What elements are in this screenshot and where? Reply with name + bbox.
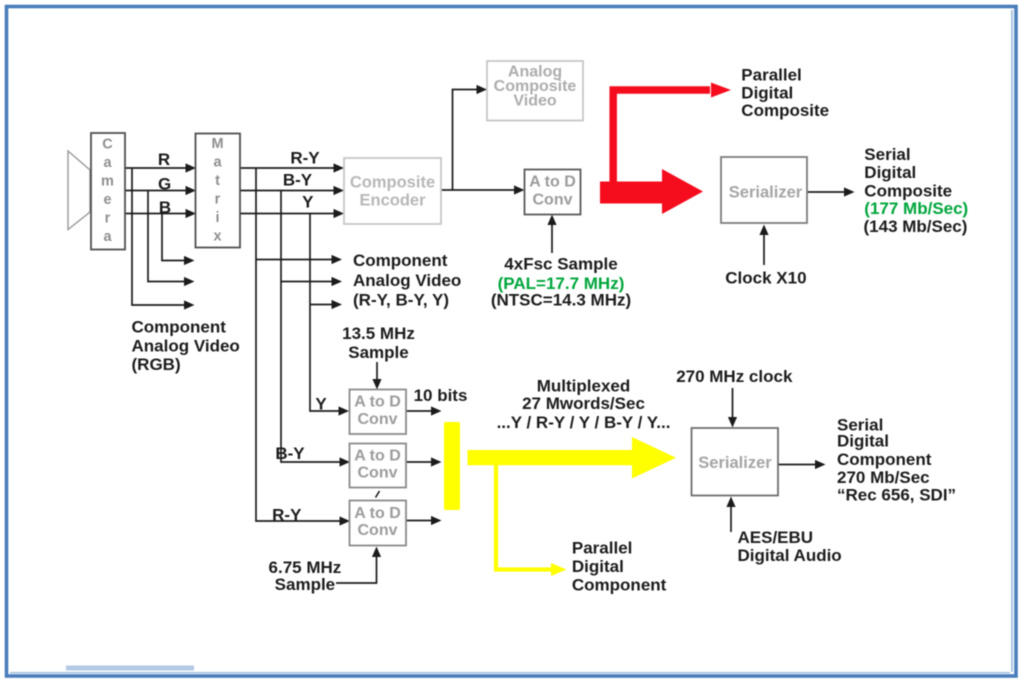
svg-text:270 Mb/Sec: 270 Mb/Sec (837, 468, 930, 487)
svg-text:(NTSC=14.3 MHz): (NTSC=14.3 MHz) (491, 290, 631, 309)
svg-text:Conv: Conv (358, 411, 398, 428)
svg-text:t: t (215, 173, 220, 189)
svg-text:a: a (213, 154, 222, 170)
svg-text:Digital: Digital (741, 84, 793, 103)
svg-text:...Y / R-Y / Y / B-Y / Y...: ...Y / R-Y / Y / B-Y / Y... (497, 413, 671, 432)
svg-text:Serializer: Serializer (698, 454, 772, 472)
svg-text:Parallel: Parallel (741, 66, 802, 85)
svg-text:Digital: Digital (572, 557, 624, 576)
svg-text:Conv: Conv (358, 522, 398, 539)
svg-text:i: i (215, 210, 219, 226)
svg-text:(143 Mb/Sec): (143 Mb/Sec) (864, 217, 968, 236)
svg-text:A to D: A to D (529, 174, 576, 191)
svg-text:270 MHz clock: 270 MHz clock (676, 367, 793, 386)
svg-text:a: a (103, 155, 112, 171)
svg-text:Digital Audio: Digital Audio (738, 546, 842, 565)
svg-text:27 Mwords/Sec: 27 Mwords/Sec (522, 394, 645, 413)
svg-text:Conv: Conv (358, 465, 398, 482)
svg-text:Clock X10: Clock X10 (725, 268, 806, 287)
svg-text:4xFsc Sample: 4xFsc Sample (504, 255, 617, 274)
svg-text:10 bits: 10 bits (414, 386, 468, 405)
svg-text:Sample: Sample (275, 575, 335, 594)
svg-text:G: G (158, 174, 171, 193)
svg-text:“Rec 656, SDI”: “Rec 656, SDI” (837, 486, 956, 505)
svg-text:Composite: Composite (741, 101, 829, 120)
svg-text:(RGB): (RGB) (132, 355, 181, 374)
svg-text:Component: Component (572, 575, 667, 594)
svg-text:B-Y: B-Y (283, 170, 313, 189)
svg-text:AES/EBU: AES/EBU (738, 528, 814, 547)
svg-text:Component: Component (353, 251, 448, 270)
svg-text:Encoder: Encoder (359, 192, 426, 210)
svg-text:R-Y: R-Y (290, 148, 320, 167)
svg-text:A to D: A to D (354, 394, 401, 411)
svg-text:Digital: Digital (864, 163, 916, 182)
svg-text:r: r (215, 191, 221, 207)
svg-text:M: M (211, 136, 223, 152)
svg-text:R: R (158, 150, 170, 169)
svg-text:Component: Component (132, 317, 227, 336)
svg-text:Multiplexed: Multiplexed (537, 377, 631, 396)
svg-text:Sample: Sample (348, 343, 408, 362)
svg-text:Parallel: Parallel (572, 539, 633, 558)
svg-text:Composite: Composite (864, 182, 952, 201)
svg-text:Digital: Digital (837, 432, 889, 451)
svg-text:13.5 MHz: 13.5 MHz (342, 324, 415, 343)
svg-text:m: m (101, 173, 114, 189)
svg-text:B-Y: B-Y (275, 444, 305, 463)
svg-text:B: B (159, 198, 171, 217)
svg-text:Analog Video: Analog Video (132, 336, 240, 355)
svg-text:a: a (103, 229, 112, 245)
svg-text:Composite: Composite (350, 173, 435, 191)
svg-text:R-Y: R-Y (272, 506, 302, 525)
svg-text:e: e (103, 192, 111, 208)
svg-text:C: C (102, 136, 113, 152)
svg-text:Y: Y (302, 192, 314, 211)
svg-text:Analog Video: Analog Video (353, 271, 461, 290)
svg-text:Serial: Serial (864, 145, 910, 164)
svg-text:Video: Video (513, 92, 557, 109)
svg-text:A to D: A to D (354, 505, 401, 522)
svg-text:Conv: Conv (533, 191, 573, 208)
svg-text:r: r (105, 211, 111, 227)
svg-text:Component: Component (837, 450, 932, 469)
svg-text:x: x (213, 228, 221, 244)
svg-text:(177 Mb/Sec): (177 Mb/Sec) (864, 199, 968, 218)
svg-text:Y: Y (315, 394, 327, 413)
svg-text:A to D: A to D (354, 447, 401, 464)
svg-text:Serializer: Serializer (729, 183, 803, 201)
svg-text:(R-Y, B-Y, Y): (R-Y, B-Y, Y) (353, 291, 449, 310)
